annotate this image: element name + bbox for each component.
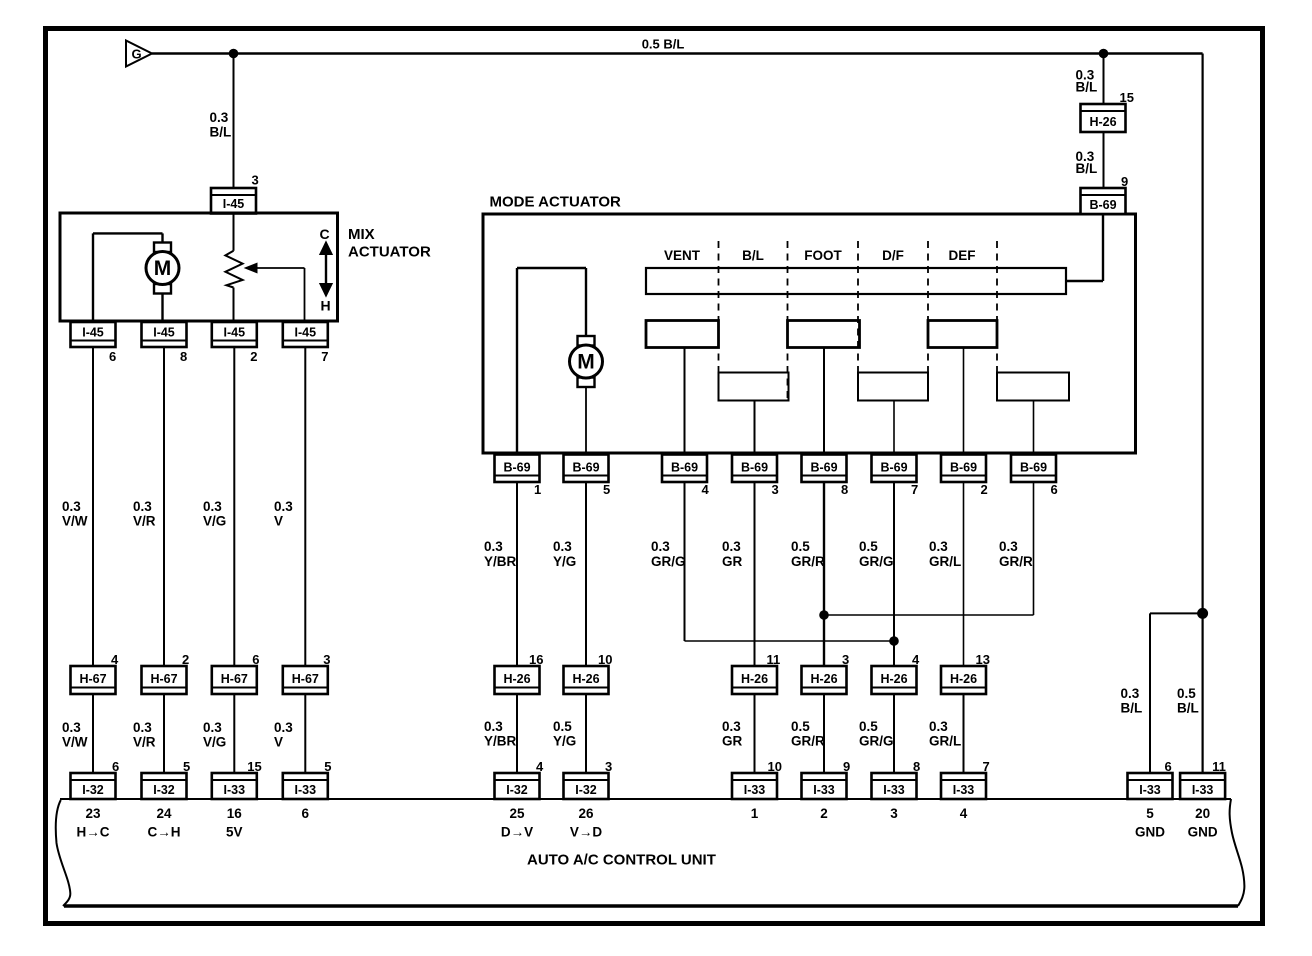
svg-text:V/R: V/R xyxy=(133,735,156,750)
svg-text:0.3: 0.3 xyxy=(999,539,1018,554)
svg-text:Y/G: Y/G xyxy=(553,734,576,749)
svg-text:B/L: B/L xyxy=(1177,701,1199,716)
svg-text:G: G xyxy=(131,47,141,62)
svg-text:8: 8 xyxy=(841,482,848,497)
svg-text:0.3: 0.3 xyxy=(553,539,572,554)
svg-text:H-26: H-26 xyxy=(572,672,599,686)
svg-text:DEF: DEF xyxy=(949,248,976,263)
svg-text:3: 3 xyxy=(772,482,779,497)
svg-text:16: 16 xyxy=(529,652,543,667)
svg-text:4: 4 xyxy=(536,759,544,774)
svg-text:0.3: 0.3 xyxy=(210,110,229,125)
svg-text:B/L: B/L xyxy=(1121,701,1143,716)
svg-text:D/F: D/F xyxy=(882,248,904,263)
svg-text:0.3: 0.3 xyxy=(929,539,948,554)
svg-text:H-26: H-26 xyxy=(880,672,907,686)
svg-text:I-33: I-33 xyxy=(953,783,975,797)
svg-text:V/G: V/G xyxy=(203,514,226,529)
svg-text:0.3: 0.3 xyxy=(203,499,222,514)
svg-text:0.3: 0.3 xyxy=(203,720,222,735)
svg-text:I-45: I-45 xyxy=(153,326,175,340)
svg-text:16: 16 xyxy=(227,806,243,821)
svg-text:B-69: B-69 xyxy=(950,461,977,475)
svg-text:I-32: I-32 xyxy=(506,783,528,797)
svg-text:11: 11 xyxy=(767,652,781,667)
svg-text:I-32: I-32 xyxy=(153,783,175,797)
svg-text:0.3: 0.3 xyxy=(133,499,152,514)
svg-text:B/L: B/L xyxy=(1076,161,1098,176)
svg-text:V/W: V/W xyxy=(62,514,88,529)
svg-text:0.5: 0.5 xyxy=(791,539,810,554)
svg-text:5: 5 xyxy=(603,482,610,497)
svg-text:0.3: 0.3 xyxy=(722,719,741,734)
svg-text:0.5 B/L: 0.5 B/L xyxy=(642,37,685,52)
svg-text:8: 8 xyxy=(180,349,187,364)
svg-text:H-67: H-67 xyxy=(79,672,106,686)
svg-text:B-69: B-69 xyxy=(572,461,599,475)
svg-text:I-33: I-33 xyxy=(224,783,246,797)
svg-text:0.3: 0.3 xyxy=(62,720,81,735)
svg-text:6: 6 xyxy=(252,652,259,667)
svg-text:0.3: 0.3 xyxy=(722,539,741,554)
svg-text:MODE ACTUATOR: MODE ACTUATOR xyxy=(490,194,622,211)
svg-text:3: 3 xyxy=(605,759,612,774)
svg-text:GR/R: GR/R xyxy=(791,554,825,569)
svg-text:4: 4 xyxy=(111,652,119,667)
svg-text:I-33: I-33 xyxy=(883,783,905,797)
svg-text:0.5: 0.5 xyxy=(1177,686,1196,701)
svg-text:H-26: H-26 xyxy=(950,672,977,686)
svg-text:5: 5 xyxy=(1146,806,1154,821)
svg-text:I-33: I-33 xyxy=(744,783,766,797)
svg-text:4: 4 xyxy=(702,482,710,497)
svg-text:0.3: 0.3 xyxy=(929,719,948,734)
svg-text:I-45: I-45 xyxy=(295,326,317,340)
svg-text:B-69: B-69 xyxy=(810,461,837,475)
svg-text:D→V: D→V xyxy=(501,825,533,840)
svg-text:V/G: V/G xyxy=(203,735,226,750)
svg-text:6: 6 xyxy=(1165,759,1172,774)
svg-text:2: 2 xyxy=(820,806,828,821)
svg-text:13: 13 xyxy=(976,652,990,667)
svg-text:6: 6 xyxy=(302,806,310,821)
svg-text:0.3: 0.3 xyxy=(274,720,293,735)
svg-text:Y/BR: Y/BR xyxy=(484,734,517,749)
svg-text:H-67: H-67 xyxy=(221,672,248,686)
svg-text:M: M xyxy=(577,351,595,374)
svg-text:I-45: I-45 xyxy=(224,326,246,340)
svg-text:4: 4 xyxy=(960,806,968,821)
svg-text:0.5: 0.5 xyxy=(859,539,878,554)
svg-text:H: H xyxy=(320,298,330,314)
svg-text:B-69: B-69 xyxy=(1089,198,1116,212)
svg-text:20: 20 xyxy=(1195,806,1210,821)
svg-text:B-69: B-69 xyxy=(503,461,530,475)
svg-text:FOOT: FOOT xyxy=(804,248,842,263)
svg-text:GR/R: GR/R xyxy=(791,734,825,749)
svg-text:3: 3 xyxy=(252,173,259,188)
svg-text:M: M xyxy=(154,257,172,280)
svg-text:GR/G: GR/G xyxy=(651,554,686,569)
svg-text:0.3: 0.3 xyxy=(484,719,503,734)
svg-text:0.5: 0.5 xyxy=(791,719,810,734)
svg-text:I-45: I-45 xyxy=(223,197,245,211)
svg-text:GR/R: GR/R xyxy=(999,554,1033,569)
svg-text:GND: GND xyxy=(1188,825,1218,840)
svg-text:0.3: 0.3 xyxy=(484,539,503,554)
svg-text:I-33: I-33 xyxy=(1192,783,1214,797)
svg-text:11: 11 xyxy=(1212,759,1226,774)
svg-text:GR/L: GR/L xyxy=(929,554,961,569)
svg-text:9: 9 xyxy=(1121,174,1128,189)
svg-text:B/L: B/L xyxy=(210,125,232,140)
svg-text:0.3: 0.3 xyxy=(1121,686,1140,701)
svg-text:7: 7 xyxy=(321,349,328,364)
svg-text:GR: GR xyxy=(722,554,743,569)
svg-text:24: 24 xyxy=(156,806,172,821)
svg-text:25: 25 xyxy=(509,806,525,821)
svg-text:C: C xyxy=(319,226,329,242)
svg-text:3: 3 xyxy=(323,652,330,667)
svg-text:I-33: I-33 xyxy=(1139,783,1161,797)
svg-text:I-32: I-32 xyxy=(575,783,597,797)
svg-text:5: 5 xyxy=(324,759,331,774)
svg-text:H-26: H-26 xyxy=(1089,115,1116,129)
svg-text:AUTO A/C CONTROL UNIT: AUTO A/C CONTROL UNIT xyxy=(527,852,716,869)
svg-text:1: 1 xyxy=(534,482,541,497)
svg-text:6: 6 xyxy=(1051,482,1058,497)
svg-text:H-26: H-26 xyxy=(503,672,530,686)
svg-text:I-32: I-32 xyxy=(82,783,104,797)
svg-text:Y/G: Y/G xyxy=(553,554,576,569)
svg-text:V/W: V/W xyxy=(62,735,88,750)
svg-text:10: 10 xyxy=(598,652,612,667)
svg-text:VENT: VENT xyxy=(664,248,701,263)
svg-text:0.5: 0.5 xyxy=(859,719,878,734)
svg-text:I-33: I-33 xyxy=(295,783,317,797)
svg-text:3: 3 xyxy=(890,806,898,821)
svg-text:7: 7 xyxy=(983,759,990,774)
svg-text:0.3: 0.3 xyxy=(62,499,81,514)
svg-text:H-67: H-67 xyxy=(150,672,177,686)
svg-text:I-33: I-33 xyxy=(813,783,835,797)
svg-text:2: 2 xyxy=(250,349,257,364)
svg-text:H-67: H-67 xyxy=(292,672,319,686)
svg-text:ACTUATOR: ACTUATOR xyxy=(348,244,431,261)
svg-text:C→H: C→H xyxy=(148,825,181,840)
svg-text:V: V xyxy=(274,735,283,750)
svg-text:GND: GND xyxy=(1135,825,1165,840)
svg-text:2: 2 xyxy=(981,482,988,497)
svg-text:B-69: B-69 xyxy=(741,461,768,475)
svg-text:H-26: H-26 xyxy=(810,672,837,686)
svg-text:GR/L: GR/L xyxy=(929,734,961,749)
svg-text:V/R: V/R xyxy=(133,514,156,529)
svg-text:8: 8 xyxy=(913,759,920,774)
svg-text:B-69: B-69 xyxy=(671,461,698,475)
svg-text:0.3: 0.3 xyxy=(274,499,293,514)
svg-text:23: 23 xyxy=(85,806,101,821)
svg-text:7: 7 xyxy=(911,482,918,497)
svg-text:2: 2 xyxy=(182,652,189,667)
svg-text:B/L: B/L xyxy=(1076,80,1098,95)
svg-text:26: 26 xyxy=(578,806,594,821)
svg-text:GR/G: GR/G xyxy=(859,734,894,749)
svg-text:9: 9 xyxy=(843,759,850,774)
svg-text:5: 5 xyxy=(183,759,190,774)
svg-text:15: 15 xyxy=(1120,90,1134,105)
svg-text:4: 4 xyxy=(912,652,920,667)
svg-text:1: 1 xyxy=(751,806,759,821)
svg-text:MIX: MIX xyxy=(348,226,375,243)
svg-text:0.3: 0.3 xyxy=(133,720,152,735)
svg-text:V: V xyxy=(274,514,283,529)
svg-text:H-26: H-26 xyxy=(741,672,768,686)
svg-text:0.3: 0.3 xyxy=(651,539,670,554)
svg-text:0.5: 0.5 xyxy=(553,719,572,734)
svg-text:GR: GR xyxy=(722,734,743,749)
svg-text:3: 3 xyxy=(842,652,849,667)
svg-text:Y/BR: Y/BR xyxy=(484,554,517,569)
svg-text:I-45: I-45 xyxy=(82,326,104,340)
svg-text:6: 6 xyxy=(109,349,116,364)
svg-text:B/L: B/L xyxy=(742,248,764,263)
svg-text:B-69: B-69 xyxy=(1020,461,1047,475)
svg-text:10: 10 xyxy=(768,759,782,774)
svg-text:15: 15 xyxy=(247,759,261,774)
svg-text:B-69: B-69 xyxy=(880,461,907,475)
svg-text:GR/G: GR/G xyxy=(859,554,894,569)
svg-text:5V: 5V xyxy=(226,825,243,840)
svg-text:6: 6 xyxy=(112,759,119,774)
svg-text:H→C: H→C xyxy=(77,825,110,840)
svg-text:V→D: V→D xyxy=(570,825,603,840)
